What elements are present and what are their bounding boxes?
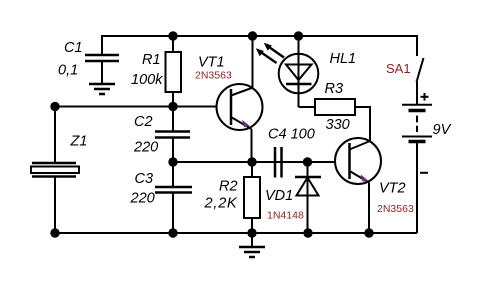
label VT2 — [379, 181, 406, 197]
wire switch to battery — [416, 82, 418, 105]
svg-text:VT2: VT2 — [379, 181, 406, 197]
svg-text:100k: 100k — [131, 72, 163, 88]
wire VT1 emitter — [251, 129, 253, 162]
resistor R1 — [166, 36, 182, 106]
label SA1 — [386, 61, 411, 76]
ground (bottom) — [239, 233, 265, 257]
node VD1 top — [303, 157, 312, 166]
resistor R2 — [244, 162, 260, 233]
label C3 — [135, 171, 154, 187]
label + — [421, 93, 429, 101]
svg-text:R1: R1 — [142, 52, 161, 68]
node R2 bottom — [247, 228, 256, 237]
svg-text:C3: C3 — [135, 171, 154, 187]
svg-text:2N3563: 2N3563 — [377, 203, 414, 215]
svg-text:C4 100: C4 100 — [268, 127, 315, 143]
svg-text:0,1: 0,1 — [58, 63, 78, 79]
transistor VT1 — [217, 84, 263, 130]
label 100k — [131, 72, 163, 88]
node C3 bottom — [168, 228, 177, 237]
wire VT1 collector — [252, 36, 254, 88]
label 2N3563 (VT2) — [377, 203, 414, 215]
svg-text:VD1: VD1 — [265, 188, 293, 204]
label R3 — [325, 81, 344, 97]
wire VT2 emitter — [368, 183, 370, 234]
label R2 — [219, 179, 238, 195]
node R1 top — [168, 31, 177, 40]
battery GB1 9V — [402, 105, 432, 142]
label R1 — [142, 52, 161, 68]
svg-text:220: 220 — [130, 191, 155, 207]
wire HL1 to R3 — [299, 106, 316, 108]
svg-text:C2: C2 — [134, 114, 153, 130]
svg-text:VT1: VT1 — [198, 55, 225, 71]
label 9V — [433, 122, 452, 138]
resistor R3 — [315, 99, 355, 115]
label 220 (C3) — [130, 191, 155, 207]
wire Z1 top — [54, 107, 56, 164]
transistor VT2 — [335, 138, 381, 184]
wire mid rail — [55, 106, 217, 108]
node VT1 collector top — [248, 31, 257, 40]
crystal Z1 — [31, 163, 79, 177]
wire battery to bottom rail — [416, 142, 418, 233]
svg-text:9V: 9V — [433, 122, 452, 138]
svg-text:HL1: HL1 — [330, 51, 357, 67]
node emitter/R2/C4 junction — [247, 157, 256, 166]
node bottom left — [50, 228, 59, 237]
svg-text:2,2K: 2,2K — [204, 196, 239, 212]
diode VD1 — [295, 162, 321, 233]
svg-text:SA1: SA1 — [386, 61, 411, 76]
LED HL1 — [279, 36, 319, 107]
svg-text:2N3563: 2N3563 — [195, 70, 232, 82]
emitter arrow VT2 — [361, 174, 369, 181]
label C2 — [134, 114, 153, 130]
label VD1 — [265, 188, 293, 204]
label - — [420, 172, 428, 174]
switch SA1 — [417, 58, 424, 82]
wire R3 to VT2 collector — [355, 107, 370, 141]
label 0,1 — [58, 63, 78, 79]
wire bottom rail — [55, 232, 417, 234]
svg-text:330: 330 — [326, 117, 350, 133]
node HL1 top — [294, 31, 303, 40]
svg-text:R2: R2 — [219, 179, 238, 195]
capacitor C4 — [275, 147, 282, 178]
node C2/C3 junction — [168, 157, 177, 166]
label C4 100 — [268, 127, 315, 143]
label 330 — [326, 117, 350, 133]
svg-text:Z1: Z1 — [70, 134, 88, 150]
wire second rail — [173, 161, 336, 163]
node mid rail left — [50, 102, 59, 111]
svg-text:C1: C1 — [64, 40, 83, 56]
svg-text:220: 220 — [133, 140, 158, 156]
label Z1 — [70, 134, 88, 150]
label 1N4148 — [267, 210, 304, 222]
emission arrows HL1 — [256, 43, 284, 63]
label VT1 — [198, 55, 225, 71]
ground (under C1) — [89, 84, 115, 94]
wire Z1 bottom — [54, 177, 56, 234]
svg-text:1N4148: 1N4148 — [267, 210, 304, 222]
wire top rail — [102, 36, 417, 56]
label C1 — [64, 40, 83, 56]
capacitor C2 — [155, 107, 190, 163]
svg-text:R3: R3 — [325, 81, 344, 97]
label 2,2K — [204, 196, 239, 212]
node VD1 bottom — [303, 228, 312, 237]
label HL1 — [330, 51, 357, 67]
emitter arrow VT1 — [242, 120, 250, 127]
capacitor C1 — [85, 55, 119, 84]
node R1 bottom — [168, 102, 177, 111]
node VT2 emitter bottom — [364, 228, 373, 237]
label 220 (C2) — [133, 140, 158, 156]
label 2N3563 (VT1) — [195, 70, 232, 82]
capacitor C3 — [155, 162, 192, 233]
